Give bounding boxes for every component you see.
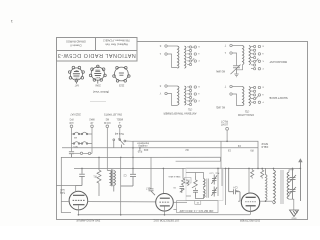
AVC wire 1 bbox=[217, 168, 219, 196]
svg-text:G: G bbox=[262, 93, 264, 95]
svg-text:M3 (M4): M3 (M4) bbox=[216, 70, 225, 73]
IF cathode capacitor C5 bbox=[193, 190, 198, 197]
svg-text:2ND AUDIO AMPLIF.: 2ND AUDIO AMPLIF. bbox=[76, 219, 101, 223]
tube socket V2 (25A6) bbox=[89, 65, 106, 84]
svg-text:SW LIST PARTS: SW LIST PARTS bbox=[104, 113, 122, 116]
svg-text:C6: C6 bbox=[227, 149, 231, 152]
antenna coil T1 section B primary winding bbox=[178, 86, 180, 105]
svg-text:Chassis 8: Chassis 8 bbox=[70, 44, 82, 48]
V4 cathode bbox=[73, 204, 85, 206]
svg-text:BROADCAST: BROADCAST bbox=[269, 60, 287, 64]
svg-text:C10: C10 bbox=[209, 171, 214, 173]
T3 primary leads bbox=[272, 168, 274, 203]
svg-text:OSCILLATOR: OSCILLATOR bbox=[238, 113, 254, 117]
antenna coil T1 section A socket contacts bbox=[187, 46, 196, 66]
svg-text:SPKR: SPKR bbox=[261, 142, 268, 145]
border frame bbox=[57, 37, 308, 220]
svg-text:G: G bbox=[198, 52, 200, 54]
contact pin labels ant A bbox=[198, 45, 200, 61]
svg-text:C2: C2 bbox=[123, 174, 127, 177]
svg-text:coupling: coupling bbox=[138, 144, 148, 147]
svg-text:B: B bbox=[262, 86, 264, 88]
bus wire L3 bbox=[61, 157, 220, 212]
svg-text:impedance: impedance bbox=[136, 141, 148, 144]
oscillator coil T2 section B primary winding bbox=[243, 87, 245, 106]
chassis ground bbox=[290, 210, 299, 217]
svg-text:P: P bbox=[198, 59, 200, 61]
contact pin labels osc A bbox=[262, 45, 264, 69]
svg-text:GND: GND bbox=[291, 216, 296, 218]
svg-text:Highland, New York: Highland, New York bbox=[104, 43, 127, 47]
output transformer T3 secondary bbox=[287, 172, 289, 199]
oscillator coil T2 section A primary winding bbox=[243, 46, 245, 65]
V5 cathode lead bbox=[164, 206, 166, 215]
svg-text:Y: Y bbox=[159, 92, 161, 95]
oscillator coil T2 section A socket contacts bbox=[251, 45, 261, 70]
V6 left nub wire bbox=[238, 200, 240, 202]
capacitor C2 bbox=[76, 168, 85, 185]
svg-text:25A6: 25A6 bbox=[95, 69, 101, 72]
tube socket V1 (6A7) bbox=[68, 66, 84, 83]
oscillator trimmer capacitor C4 bbox=[231, 65, 241, 77]
svg-text:C9: C9 bbox=[237, 144, 241, 147]
dropping resistor R5 bbox=[251, 168, 254, 178]
pentode V5 envelope bbox=[156, 194, 174, 212]
svg-text:25Z5 RECTIFIER: 25Z5 RECTIFIER bbox=[240, 219, 260, 223]
svg-text:K: K bbox=[262, 60, 264, 62]
V5 grid bbox=[159, 201, 170, 203]
svg-text:P: P bbox=[262, 67, 264, 69]
oscillator coil T2 section B secondary winding bbox=[249, 87, 251, 106]
svg-text:K: K bbox=[159, 44, 161, 47]
detector info box bbox=[177, 201, 219, 213]
svg-text:T: T bbox=[224, 85, 226, 88]
svg-text:M1 (M2): M1 (M2) bbox=[216, 106, 225, 109]
bus wire L4 bbox=[74, 167, 300, 169]
power switch contacts bbox=[74, 152, 92, 154]
svg-text:FIELD: FIELD bbox=[261, 145, 268, 148]
antenna coil T1 section B terminals bbox=[165, 85, 178, 106]
pilot light wire bbox=[226, 130, 228, 141]
svg-text:39A6 4 MEG: 39A6 4 MEG bbox=[168, 175, 180, 178]
antenna coil T1 section A primary winding bbox=[178, 46, 180, 68]
title block address text right cell bbox=[103, 39, 130, 47]
svg-text:LIGHT: LIGHT bbox=[220, 123, 228, 126]
AVC wire 2 bbox=[221, 168, 223, 186]
antenna coil T1 section A secondary winding bbox=[185, 46, 187, 68]
screen wire to V5 top bbox=[162, 168, 164, 193]
svg-text:NATIONAL RADIO DC5W-3: NATIONAL RADIO DC5W-3 bbox=[57, 52, 136, 58]
svg-text:L: L bbox=[224, 51, 226, 54]
svg-text:1: 1 bbox=[10, 19, 13, 24]
oscillator coil T2 section B socket contacts bbox=[251, 86, 261, 103]
svg-text:R22: R22 bbox=[143, 148, 148, 151]
svg-text:6A7: 6A7 bbox=[74, 84, 79, 87]
speaker field coil bbox=[266, 168, 268, 201]
svg-text:GRAND RAPIDS: GRAND RAPIDS bbox=[66, 40, 86, 44]
dropping resistor R6 bbox=[261, 168, 264, 178]
grid resistor R4 bbox=[182, 168, 185, 186]
svg-text:(Bottom View): (Bottom View) bbox=[93, 90, 109, 94]
capacitor C3 bbox=[121, 168, 136, 186]
svg-text:ANTENNA TRANSFORMER: ANTENNA TRANSFORMER bbox=[163, 112, 196, 116]
svg-text:G: G bbox=[262, 52, 264, 54]
antenna coil T1 section B secondary winding bbox=[185, 86, 187, 105]
V4 grid bbox=[73, 199, 85, 201]
pilot light label bbox=[220, 120, 228, 126]
svg-text:R11: R11 bbox=[215, 171, 220, 173]
speaker field label bbox=[261, 142, 268, 148]
svg-text:B: B bbox=[198, 45, 200, 47]
svg-text:Hum adj: Hum adj bbox=[115, 132, 124, 135]
svg-text:C14: C14 bbox=[233, 185, 238, 187]
svg-text:25A6: 25A6 bbox=[95, 84, 101, 87]
svg-text:R10: R10 bbox=[137, 150, 142, 153]
IF trimmer capacitor C7 bbox=[211, 187, 217, 197]
svg-text:R2: R2 bbox=[185, 148, 189, 151]
IF transformer core bbox=[206, 179, 208, 198]
V4 plate lead bbox=[56, 186, 75, 192]
svg-text:P: P bbox=[198, 99, 200, 101]
contact pin labels osc B bbox=[262, 86, 264, 103]
audio transformer TA bbox=[108, 169, 116, 191]
V4 side wire to V5 bbox=[88, 201, 156, 203]
svg-text:4-W: 4-W bbox=[69, 121, 74, 124]
band switch S1 row 1 bbox=[72, 132, 93, 135]
resistor R1 bbox=[97, 157, 101, 196]
filter capacitor C14 bbox=[229, 168, 240, 201]
svg-text:SHORT WAVE: SHORT WAVE bbox=[269, 96, 288, 100]
V6 bottom lead bbox=[250, 206, 252, 215]
band switch S1 row 2 bbox=[72, 142, 93, 145]
triode V4 envelope bbox=[69, 191, 88, 210]
hum adjust switch S2 bbox=[113, 138, 134, 147]
svg-text:B: B bbox=[198, 85, 200, 87]
bus wire L3b bbox=[176, 157, 221, 161]
V5 cathode bbox=[160, 205, 170, 207]
svg-text:R14: R14 bbox=[185, 179, 190, 181]
V6 plate bbox=[246, 196, 256, 198]
V6 cathode bbox=[246, 205, 256, 207]
output transformer T3 primary bbox=[274, 170, 276, 204]
svg-text:(T2): (T2) bbox=[245, 109, 250, 112]
svg-text:(T1): (T1) bbox=[188, 108, 193, 111]
IF transformer box bbox=[186, 168, 223, 201]
svg-text:R1: R1 bbox=[93, 175, 97, 178]
svg-text:R9: R9 bbox=[250, 148, 254, 151]
impedance coupling label bbox=[136, 141, 148, 147]
V5 right wire bbox=[173, 201, 187, 203]
pilot light terminal bbox=[226, 127, 229, 130]
wire grid return jog bbox=[61, 212, 71, 214]
antenna coil T1 section A terminals bbox=[165, 45, 178, 68]
AVC drop wire bbox=[220, 141, 222, 168]
grid capacitor C8 bbox=[180, 187, 185, 194]
svg-text:25Z5: 25Z5 bbox=[118, 84, 124, 86]
AVC wire 3 bbox=[225, 168, 227, 205]
T3 secondary leads bbox=[289, 170, 294, 210]
svg-text:B: B bbox=[262, 45, 264, 47]
bus stub R10 bbox=[139, 148, 141, 151]
tone capacitor C13 bbox=[289, 187, 296, 199]
wire V5 to detector box bbox=[173, 208, 176, 210]
tone capacitor C12 bbox=[289, 168, 296, 189]
grid coupling capacitor C17 bbox=[149, 189, 156, 195]
V5 plate bbox=[160, 197, 170, 199]
svg-text:AMP: AMP bbox=[95, 76, 100, 79]
long wire to cathode bus bbox=[120, 157, 122, 214]
title block address text left cell bbox=[66, 40, 86, 48]
svg-text:39: 39 bbox=[196, 201, 199, 203]
svg-text:DET: DET bbox=[74, 76, 79, 78]
V4 plate bbox=[73, 194, 85, 196]
detector info sub box bbox=[195, 201, 201, 205]
antenna coil T1 section B socket contacts bbox=[187, 86, 196, 106]
IF unit label box bbox=[185, 178, 192, 184]
terminal drop wires bbox=[72, 128, 120, 171]
contact pin labels ant B bbox=[198, 85, 200, 101]
svg-text:fying: fying bbox=[59, 191, 65, 194]
oscillator coil T2 section A secondary winding bbox=[249, 46, 251, 65]
svg-text:PILOT: PILOT bbox=[221, 120, 228, 123]
terminal strip labels bbox=[69, 118, 123, 124]
V4 cathode lead bbox=[77, 205, 79, 215]
output transformer T3 core bbox=[280, 170, 282, 204]
rectifier V6 envelope bbox=[241, 193, 259, 211]
title block box bbox=[57, 38, 138, 62]
svg-text:C17: C17 bbox=[145, 186, 150, 189]
svg-text:G: G bbox=[198, 92, 200, 94]
V4 grid lead left bbox=[61, 200, 69, 202]
cathode bus wire L5 bbox=[78, 214, 250, 216]
small resistor R17 bbox=[187, 180, 189, 186]
B+ bus wire L1 bbox=[133, 141, 258, 168]
svg-text:L: L bbox=[159, 52, 161, 55]
svg-text:1ST DETECTOR OSC.: 1ST DETECTOR OSC. bbox=[152, 219, 179, 223]
svg-text:T: T bbox=[224, 44, 226, 47]
svg-text:C8: C8 bbox=[173, 186, 177, 188]
tube socket V3 (25Z5) bbox=[113, 67, 130, 83]
svg-text:IFG: IFG bbox=[69, 118, 73, 121]
V6 right wire bbox=[260, 200, 272, 202]
svg-text:recti: recti bbox=[60, 188, 65, 191]
antenna arrow bbox=[299, 162, 301, 201]
IF trimmer capacitor C6 bbox=[211, 175, 217, 185]
svg-text:X: X bbox=[159, 84, 161, 87]
IF grid resistor R3 bbox=[192, 176, 197, 190]
svg-text:25Z5 6A7: 25Z5 6A7 bbox=[70, 113, 81, 116]
svg-text:IM42: IM42 bbox=[89, 118, 95, 121]
terminal posts bbox=[70, 125, 121, 128]
junction dots bbox=[78, 141, 302, 216]
IF wiring bbox=[186, 173, 204, 199]
svg-text:M2: M2 bbox=[105, 118, 109, 121]
svg-text:MSEL: MSEL bbox=[116, 118, 123, 121]
svg-text:P: P bbox=[262, 101, 264, 103]
oscillator coil T2 section A terminals bbox=[230, 44, 243, 70]
faint smudge line bbox=[90, 101, 106, 103]
grid wire to V5 bbox=[150, 157, 152, 188]
V4 note bbox=[59, 188, 65, 194]
svg-text:M3: M3 bbox=[73, 136, 77, 138]
svg-text:CO-W: CO-W bbox=[103, 121, 110, 124]
IF transformer secondary coil bbox=[204, 189, 206, 198]
IF transformer primary coil bbox=[204, 179, 206, 188]
svg-text:2ND DET AVC - I.F. 456 KC AMP: 2ND DET AVC - I.F. 456 KC AMP bbox=[179, 209, 213, 212]
V6 top lead bbox=[248, 168, 250, 193]
svg-text:M15: M15 bbox=[73, 145, 78, 147]
svg-text:786 Western, FCA6B 2: 786 Western, FCA6B 2 bbox=[103, 39, 130, 43]
bus wire L2 bbox=[62, 147, 258, 149]
oscillator coil T2 section B terminals bbox=[230, 85, 243, 105]
capacitor C1 bbox=[69, 152, 74, 158]
